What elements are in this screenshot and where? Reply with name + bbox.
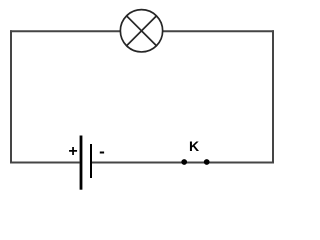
wire: left vertical side of loop	[10, 30, 12, 163]
svg-text:+: +	[68, 143, 77, 160]
lamp L1 (circle with X)	[120, 10, 162, 52]
svg-text:-: -	[99, 142, 105, 161]
wire: top left segment from corner to lamp	[10, 30, 120, 32]
svg-text:K: K	[189, 138, 199, 154]
battery B1 negative plate (short)	[90, 144, 92, 178]
battery B1 positive plate (long)	[80, 136, 83, 190]
wire: bottom segment from battery negative plate through switch to corner	[92, 162, 274, 164]
wire: right vertical side of loop	[272, 30, 274, 163]
wire: bottom left segment from corner to battery positive plate	[10, 162, 80, 164]
switch K left contact dot	[181, 159, 187, 165]
wire: top right segment from lamp to corner	[163, 30, 274, 32]
switch K right contact dot	[204, 159, 210, 165]
